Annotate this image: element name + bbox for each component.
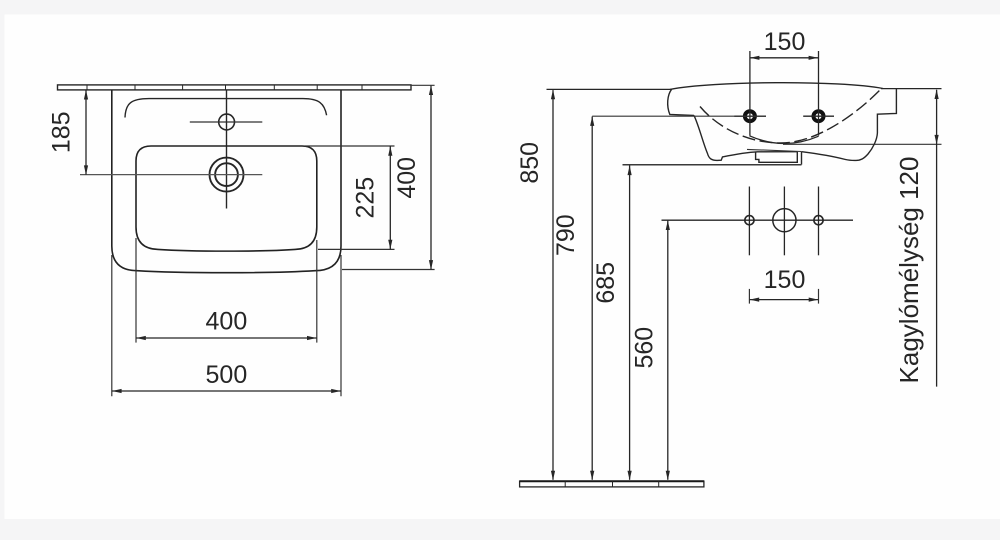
hidden bowl curve (dashed) — [700, 91, 880, 144]
bolt pattern line — [662, 219, 854, 221]
dimension 400 (right vertical) — [342, 85, 435, 269]
basin underside outline left — [694, 115, 797, 160]
svg-text:685: 685 — [592, 262, 620, 304]
basin top arc — [670, 83, 883, 90]
dimension 185 — [48, 90, 89, 175]
dimension 150 (lower) — [749, 266, 818, 304]
svg-text:400: 400 — [206, 307, 248, 335]
dimension 790 — [552, 116, 766, 480]
svg-text:Kagylómélység 120: Kagylómélység 120 — [894, 157, 924, 384]
svg-text:225: 225 — [351, 177, 379, 219]
dimension 850 — [516, 90, 555, 481]
wall rail bar — [58, 85, 412, 90]
drain trap tab — [756, 152, 798, 163]
trap plate right edge — [801, 152, 803, 165]
svg-text:560: 560 — [631, 327, 659, 369]
bowl depth reference line (120) — [783, 143, 942, 145]
inner basin outline — [136, 146, 317, 251]
svg-text:850: 850 — [516, 142, 544, 184]
dimension 685 — [592, 165, 801, 481]
svg-text:400: 400 — [393, 157, 421, 199]
svg-text:500: 500 — [206, 361, 248, 389]
basin outer outline — [112, 90, 341, 273]
svg-text:185: 185 — [48, 111, 76, 153]
svg-text:150: 150 — [764, 266, 806, 294]
dimension 150 (top) — [750, 28, 819, 60]
center vertical line — [226, 90, 228, 209]
dimension 500 — [112, 255, 341, 396]
dimension 560 — [631, 220, 670, 480]
dimension 225 — [305, 146, 395, 249]
apron upper edge line — [747, 149, 802, 151]
faucet hole — [190, 114, 262, 130]
wall fixing holes — [734, 51, 834, 136]
bowl bottom arc — [750, 136, 819, 144]
dimension 400 (bottom horizontal) — [136, 238, 317, 343]
svg-text:790: 790 — [552, 214, 580, 256]
drain — [80, 158, 262, 192]
top reference line 850 level — [547, 88, 942, 91]
basin underside outline right — [802, 89, 897, 160]
dimension 120 bowl depth — [894, 89, 939, 386]
basin left edge and rim bottom — [668, 89, 694, 115]
svg-text:150: 150 — [764, 28, 806, 56]
basin back rim curve — [125, 99, 327, 118]
floor bar — [520, 481, 704, 487]
bolt pattern circles — [745, 187, 823, 256]
